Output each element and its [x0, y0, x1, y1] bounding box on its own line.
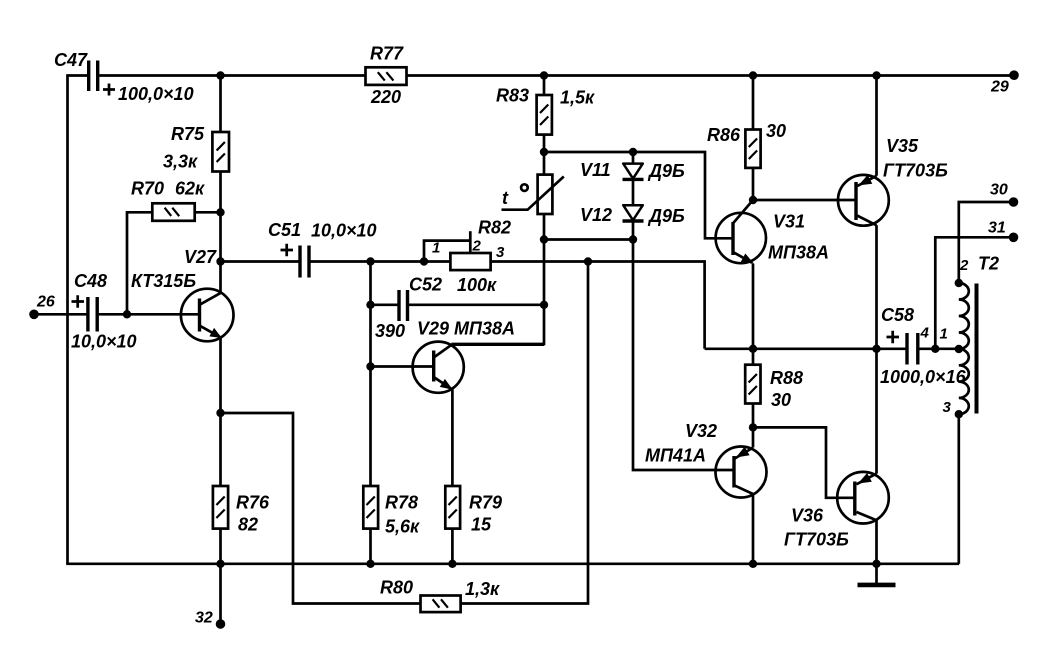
svg-text:100,0×10: 100,0×10	[118, 84, 194, 104]
wire: V29 emitter down to R79	[451, 389, 454, 486]
wire: T2 pin 3 down to bottom rail end	[957, 414, 960, 564]
junction: C52 tap	[366, 301, 374, 309]
resistor R80 1,3k	[380, 578, 500, 613]
wire: V32 collector down to bottom rail	[752, 494, 755, 564]
svg-text:26: 26	[36, 294, 55, 311]
resistor R70 62k	[131, 179, 205, 221]
wire: V35 collector down to output wire	[875, 225, 878, 348]
terminal 26	[29, 310, 39, 320]
wire: thermistor bottom down to V29 collector corner	[451, 214, 544, 344]
wire: R78 bottom lead	[369, 529, 372, 564]
wire: C52 left lead	[371, 303, 398, 306]
svg-text:1000,0×16: 1000,0×16	[880, 367, 967, 387]
svg-text:3,3к: 3,3к	[163, 152, 198, 172]
svg-text:R78: R78	[385, 493, 418, 513]
svg-text:R88: R88	[770, 368, 803, 388]
svg-text:1: 1	[432, 240, 440, 257]
svg-text:V31: V31	[773, 212, 805, 232]
svg-text:15: 15	[471, 515, 492, 535]
svg-text:31: 31	[988, 220, 1006, 237]
svg-text:5,6к: 5,6к	[385, 517, 420, 537]
resistor R78 5,6k	[363, 486, 420, 537]
resistor R86 30	[707, 121, 786, 168]
resistor R79 15	[445, 486, 502, 535]
svg-text:2: 2	[472, 238, 482, 255]
svg-text:R83: R83	[496, 86, 529, 106]
svg-text:V12: V12	[580, 205, 612, 225]
wire: R88 top lead	[752, 349, 755, 365]
junction: top rail / R83	[540, 71, 548, 79]
T2 core	[975, 284, 979, 414]
transistor V31 MP38A	[716, 200, 829, 264]
wire: bottom rail to terminal 32	[219, 564, 222, 620]
wire: diode bottom wire	[544, 238, 633, 241]
junction: V31 emitter / R88 / output wire	[749, 345, 757, 353]
svg-text:Д9Б: Д9Б	[647, 206, 685, 226]
wire: top rail C47 to R77	[99, 74, 365, 77]
resistor R83 1,5k	[496, 86, 595, 135]
resistor R77 220	[366, 44, 407, 108]
diode V12 D9B	[580, 179, 685, 239]
svg-text:R79: R79	[469, 493, 502, 513]
svg-text:R80: R80	[380, 578, 413, 598]
wire: R70 right lead	[195, 211, 221, 214]
junction: R78 column / C51 wire	[366, 257, 374, 265]
svg-text:10,0×10: 10,0×10	[311, 221, 377, 241]
junction: feedback line / R82 wire	[584, 257, 592, 265]
wire: V36 collector down to bottom rail	[875, 520, 878, 564]
svg-text:1,3к: 1,3к	[465, 579, 500, 599]
svg-text:220: 220	[370, 87, 401, 107]
svg-text:С48: С48	[74, 271, 107, 291]
junction: R79 / bottom rail	[448, 560, 456, 568]
wire: R88 node to V36 base	[753, 427, 854, 497]
transistor V32 MP41A	[645, 421, 767, 498]
svg-text:МП38А: МП38А	[768, 243, 829, 263]
T2 upper winding	[959, 283, 969, 349]
wire: R83 top lead	[543, 76, 546, 96]
svg-text:30: 30	[766, 121, 786, 141]
svg-text:МП41А: МП41А	[645, 446, 706, 466]
T2 pin 3	[955, 410, 963, 418]
wire: top rail R77 to terminal 29	[407, 74, 1015, 77]
junction: V32 emitter / R88 / V36 base wire	[749, 423, 757, 431]
wire: V27 emitter down through R76 taps	[219, 338, 222, 486]
svg-text:ГТ703Б: ГТ703Б	[784, 530, 849, 550]
svg-text:1,5к: 1,5к	[560, 88, 595, 108]
svg-text:10,0×10: 10,0×10	[71, 332, 137, 352]
svg-text:R82: R82	[478, 218, 511, 238]
wire: R75 bottom to V27 collector, with taps	[219, 172, 222, 293]
transistor V36 GT703B	[784, 472, 889, 550]
svg-text:3: 3	[943, 399, 952, 416]
junction: top rail / V35 emitter	[872, 71, 880, 79]
terminal 32	[216, 619, 226, 629]
svg-text:1: 1	[940, 326, 948, 343]
T2 pin 2	[955, 279, 963, 287]
resistor R75 3,3k	[163, 124, 229, 172]
svg-text:R77: R77	[370, 44, 404, 64]
wire: terminal 31 down to output wire	[935, 237, 1013, 348]
junction: V35 collector / V36 emitter / output wire	[872, 345, 880, 353]
capacitor C51 10,0x10	[268, 220, 377, 278]
wire: R80 left lead to V27 emitter branch	[221, 413, 421, 604]
svg-text:V35: V35	[886, 136, 919, 156]
wire: C48 to V27 base	[99, 313, 199, 316]
svg-text:390: 390	[375, 321, 405, 341]
svg-text:82: 82	[238, 515, 258, 535]
transistor V29 MP38A	[413, 319, 515, 393]
svg-text:R75: R75	[171, 124, 205, 144]
junction: terminal 31 wire / output wire	[931, 345, 939, 353]
wire: V29 base lead	[371, 365, 433, 368]
svg-text:С51: С51	[268, 220, 301, 240]
svg-text:30: 30	[771, 390, 791, 410]
junction: thermistor column / diode bottom wire	[540, 235, 548, 243]
diode V11 D9B	[580, 152, 685, 181]
wire: diode chain down to V32 base	[633, 240, 733, 471]
resistor R76 82	[213, 486, 270, 535]
wire: C51 right plate to R82	[310, 260, 450, 263]
svg-text:t: t	[502, 188, 509, 208]
wire: V29 collector to thermistor column	[451, 343, 544, 346]
terminal 31	[1009, 233, 1019, 243]
capacitor C48 10,0x10	[71, 271, 137, 352]
svg-text:29: 29	[990, 79, 1009, 96]
wire: top rail left stub to C47	[66, 74, 87, 77]
wire: R78 column from C51 wire down	[369, 262, 372, 487]
capacitor C52 390	[375, 275, 442, 342]
transistor V27 KT315B	[131, 247, 234, 341]
wire: V31 collector node to V35 base	[753, 199, 855, 202]
svg-text:V11: V11	[580, 160, 611, 180]
junction: R70 branch / base wire	[123, 310, 131, 318]
wire: R82 right to corner at output column	[491, 262, 705, 349]
wire: R88 bottom lead	[752, 404, 755, 428]
wire: R86 top lead	[752, 76, 755, 130]
junction: C52 wire / thermistor column	[540, 301, 548, 309]
svg-text:2: 2	[959, 257, 969, 274]
wire: V36 emitter up to output node	[875, 349, 878, 474]
junction: V36 collector / ground / bottom rail	[872, 560, 880, 568]
terminal 30	[1009, 197, 1019, 207]
svg-text:Т2: Т2	[978, 254, 999, 274]
svg-text:32: 32	[195, 610, 213, 627]
svg-text:КТ315Б: КТ315Б	[131, 271, 196, 291]
wire: feedback line down to R80	[461, 262, 588, 604]
svg-text:V36: V36	[791, 506, 824, 526]
wire: V32 emitter up to R88 node	[752, 427, 755, 447]
svg-text:С58: С58	[881, 305, 914, 325]
junction: V32 collector / bottom rail	[749, 560, 757, 568]
wire: terminal 26 to C48	[34, 313, 87, 316]
wire: C51 left lead	[221, 260, 300, 263]
wire: R79 bottom lead	[451, 529, 454, 564]
junction: top rail / R86	[749, 71, 757, 79]
T2 pin 1 junction	[955, 345, 963, 353]
wire: left rail	[66, 76, 69, 564]
svg-text:100к: 100к	[457, 275, 497, 295]
transformer T2	[943, 254, 1000, 419]
ground	[858, 564, 896, 585]
transistor V35 GT703B	[838, 136, 948, 226]
junction: R83 / diode wire	[540, 148, 548, 156]
junction: V31 collector / R86 / V35 base	[749, 196, 757, 204]
junction: V29 base tap	[366, 362, 374, 370]
capacitor C47	[54, 50, 194, 104]
thermistor t	[502, 175, 564, 214]
capacitor C58 1000,0x16	[880, 305, 967, 387]
junction: R70 / R75 column	[216, 208, 224, 216]
svg-text:3: 3	[496, 244, 505, 261]
junction: R80 branch / V27 emitter column	[216, 409, 224, 417]
wire: C52 right plate to thermistor column	[409, 303, 544, 306]
T2 lower winding	[959, 349, 969, 414]
wire: R83 bottom to thermistor	[543, 135, 546, 175]
svg-text:Д9Б: Д9Б	[647, 161, 685, 181]
svg-text:30: 30	[990, 182, 1008, 199]
wire: R86 bottom lead to V31 collector node	[752, 168, 755, 200]
junction: R82 wiper link / C51 wire	[420, 257, 428, 265]
junction: top rail / R75	[216, 71, 224, 79]
junction: R76 / bottom rail	[216, 560, 224, 568]
wire: V35 emitter up to top rail	[875, 76, 878, 176]
wire: C58 right plate to transformer pin 1	[919, 347, 959, 350]
wire: T2 pin 2 up and right to terminal 30	[959, 202, 1014, 283]
resistor R88 30	[745, 365, 803, 410]
wire: R76 bottom lead	[219, 529, 222, 564]
junction: C51 tap on V27 collector column	[216, 257, 224, 265]
wire: output wire from corner to C58	[705, 347, 906, 350]
wire: V31 emitter down to output wire	[752, 264, 755, 349]
potentiometer R82 100k	[424, 218, 511, 296]
junction: diode chain bottom	[629, 235, 637, 243]
svg-text:4: 4	[920, 325, 930, 342]
svg-text:R70: R70	[131, 179, 164, 199]
svg-text:ГТ703Б: ГТ703Б	[883, 161, 948, 181]
wire: R75 top lead	[219, 76, 222, 133]
junction: diode chain top	[629, 148, 637, 156]
junction: R78 / bottom rail	[366, 560, 374, 568]
terminal 29	[1009, 70, 1019, 80]
wire: diode top wire from R83 junction to V31 base corner	[544, 152, 732, 238]
svg-text:V27: V27	[184, 247, 217, 267]
wire: bottom rail	[66, 562, 959, 565]
svg-text:R76: R76	[236, 493, 270, 513]
svg-text:С47: С47	[54, 50, 88, 70]
svg-text:R86: R86	[707, 125, 741, 145]
svg-text:V32: V32	[685, 421, 717, 441]
wire: R70 left lead and branch down to base wire	[127, 212, 152, 314]
svg-text:V29 МП38А: V29 МП38А	[417, 319, 515, 339]
svg-text:С52: С52	[409, 275, 442, 295]
svg-text:62к: 62к	[175, 179, 205, 199]
